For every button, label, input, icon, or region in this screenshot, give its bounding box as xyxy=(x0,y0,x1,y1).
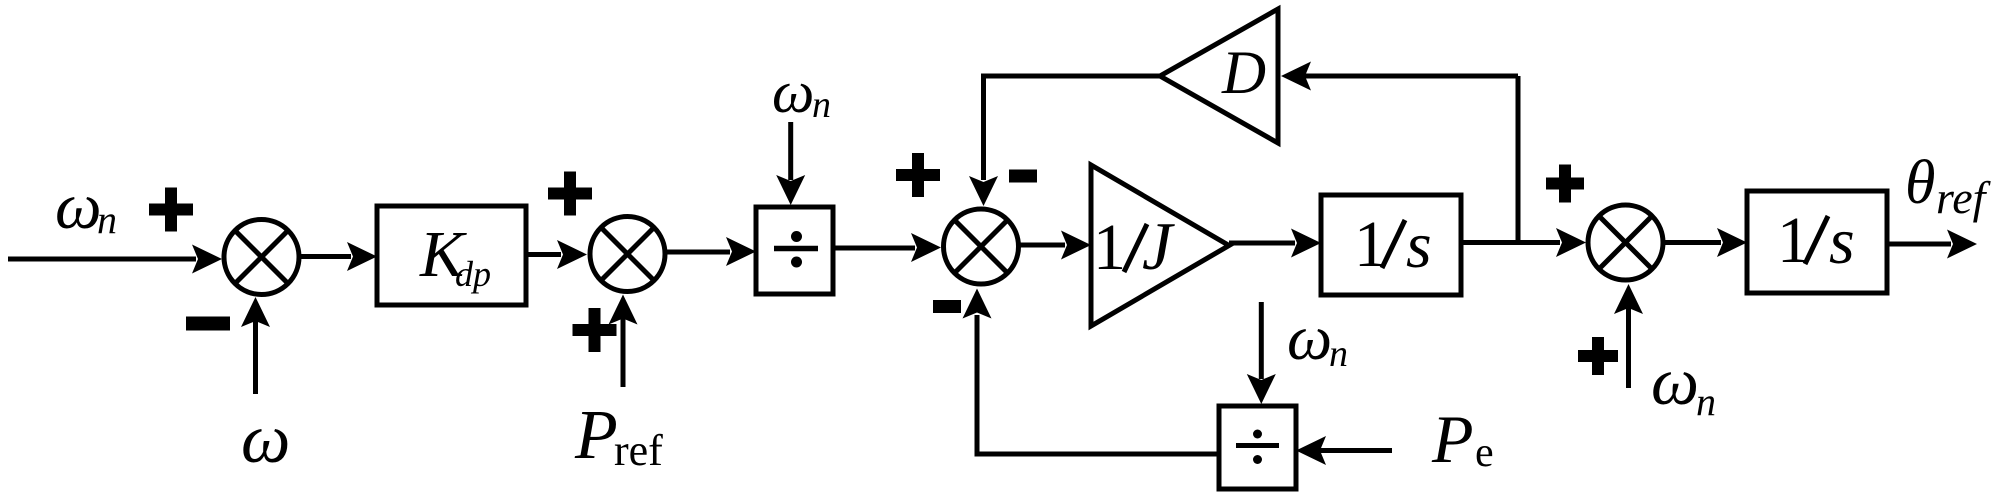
svg-text:ω: ω xyxy=(1287,302,1332,373)
svg-text:ω: ω xyxy=(1651,343,1699,419)
wire Pref up into S2 xyxy=(609,295,638,388)
wire S1 to Kdp xyxy=(299,242,377,271)
node omega_n input label xyxy=(55,170,117,243)
svg-text:s: s xyxy=(1406,209,1432,282)
svg-text:ref: ref xyxy=(614,426,663,475)
plus sign (omega_n into S1) xyxy=(149,188,193,232)
wire S4 to integrator2 xyxy=(1663,228,1747,257)
plus sign (Pref into S2) xyxy=(573,308,617,352)
svg-text:1: 1 xyxy=(1354,208,1387,281)
node theta_ref label xyxy=(1905,149,1992,223)
wire S3 to 1/J xyxy=(1019,231,1092,260)
block integrator1 1/s xyxy=(1321,195,1461,295)
plus sign (Kdp output into S2) xyxy=(548,172,592,216)
node omega label xyxy=(241,401,290,478)
svg-text:s: s xyxy=(1829,205,1855,278)
wire divide1 to S3 xyxy=(833,233,941,262)
minus sign (power feedback into S3) xyxy=(933,300,961,313)
wire output theta_ref xyxy=(1887,230,1977,259)
wire Kdp to S2 xyxy=(526,240,587,269)
summing junction S1 xyxy=(224,220,299,295)
node Pe label xyxy=(1431,401,1494,477)
plus sign (omega_n into S4) xyxy=(1578,337,1618,375)
wire integrator1 to S4 xyxy=(1461,228,1586,257)
svg-text:dp: dp xyxy=(455,254,491,294)
wire omega_n up into S4 xyxy=(1614,284,1643,388)
summing junction S2 xyxy=(590,217,665,292)
svg-text:J: J xyxy=(1142,208,1175,284)
svg-text:ref: ref xyxy=(1936,172,1992,223)
svg-text:n: n xyxy=(97,197,117,242)
node omega_n label right xyxy=(1651,343,1716,424)
wire 1/J to integrator1 xyxy=(1229,229,1321,258)
svg-text:ω: ω xyxy=(772,59,814,125)
wire divide2 to S3 bottom xyxy=(963,289,1220,455)
block divide1 xyxy=(756,207,833,294)
block divide2 xyxy=(1219,406,1296,489)
minus sign (D feedback into S3) xyxy=(1009,170,1037,183)
svg-text:ω: ω xyxy=(55,170,102,243)
summing junction S4 xyxy=(1588,205,1663,280)
svg-text:P: P xyxy=(574,397,618,474)
svg-text:P: P xyxy=(1431,401,1474,477)
wire omega_n down into divide1 xyxy=(776,122,805,205)
svg-text:D: D xyxy=(1221,40,1266,107)
wire Pe to divide2 xyxy=(1296,436,1392,465)
summing junction S3 xyxy=(944,209,1019,284)
wire feedback top to D xyxy=(1281,62,1518,91)
svg-text:n: n xyxy=(812,84,831,126)
node omega_n label above divide2 xyxy=(1287,302,1348,375)
wire S2 to divide1 xyxy=(665,237,756,266)
gain block 1/J xyxy=(1091,165,1229,326)
wire input omega_n xyxy=(8,245,222,274)
node omega_n label above divide1 xyxy=(772,59,831,126)
svg-text:e: e xyxy=(1475,430,1494,476)
node junction branch xyxy=(1516,76,1521,243)
svg-text:n: n xyxy=(1696,379,1716,424)
svg-text:1: 1 xyxy=(1093,211,1126,284)
wire omega up into S1 xyxy=(241,297,270,394)
node Pref label xyxy=(574,397,663,475)
wire omega_n down into divide2 xyxy=(1247,302,1276,404)
svg-text:n: n xyxy=(1329,333,1348,375)
svg-text:1: 1 xyxy=(1777,204,1810,277)
block integrator2 1/s xyxy=(1747,191,1887,293)
wire D to S3 top xyxy=(969,76,1160,206)
plus sign (main into S4) xyxy=(1546,165,1584,203)
svg-text:θ: θ xyxy=(1905,149,1935,217)
svg-text:ω: ω xyxy=(241,401,290,478)
minus sign (omega into S1) xyxy=(186,317,230,331)
block Kdp xyxy=(377,206,526,305)
plus sign (divide1 output into S3) xyxy=(896,153,940,197)
gain block D xyxy=(1160,9,1278,143)
